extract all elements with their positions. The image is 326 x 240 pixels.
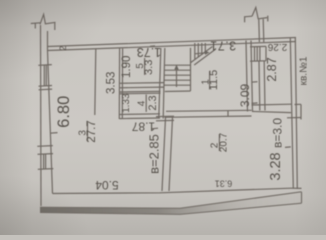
- svg-text:5.04: 5.04: [95, 178, 119, 192]
- svg-text:1.33: 1.33: [121, 93, 132, 113]
- svg-text:2.87: 2.87: [265, 57, 279, 81]
- svg-text:6.31: 6.31: [215, 179, 233, 189]
- svg-text:2: 2: [58, 46, 68, 51]
- svg-text:1.73: 1.73: [137, 45, 161, 59]
- svg-text:в=3.0: в=3.0: [271, 118, 285, 148]
- svg-text:2.3: 2.3: [147, 95, 159, 110]
- svg-text:2: 2: [210, 142, 221, 148]
- svg-text:6.80: 6.80: [55, 96, 73, 128]
- svg-text:3.71: 3.71: [210, 39, 236, 53]
- svg-text:3: 3: [78, 130, 89, 136]
- svg-text:1.87: 1.87: [131, 120, 155, 134]
- svg-text:3.3: 3.3: [143, 60, 155, 75]
- svg-text:1: 1: [201, 79, 212, 85]
- svg-text:3.28: 3.28: [268, 152, 284, 180]
- svg-text:3.09: 3.09: [238, 83, 252, 107]
- svg-text:3.53: 3.53: [106, 72, 118, 94]
- svg-text:кв.№1: кв.№1: [299, 56, 310, 85]
- svg-text:4: 4: [136, 100, 147, 106]
- svg-text:1.90: 1.90: [121, 56, 133, 78]
- svg-text:в=2.85: в=2.85: [147, 134, 162, 174]
- svg-text:2.26: 2.26: [267, 41, 287, 52]
